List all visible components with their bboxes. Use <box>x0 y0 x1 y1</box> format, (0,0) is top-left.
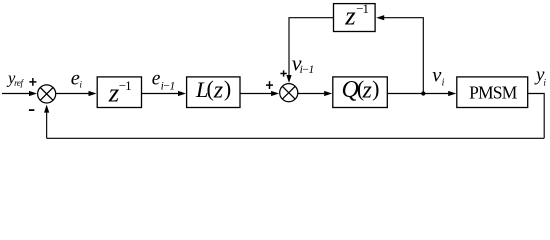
summing junction S1 <box>38 85 56 103</box>
svg-text:(: ( <box>207 76 214 101</box>
arrowhead into S2 top <box>286 75 291 83</box>
wire feedback up into S1 <box>46 112 48 138</box>
wire feedback bottom <box>47 137 545 139</box>
node junction dot at v_i <box>421 91 425 95</box>
block Z2 z^-1 (top) <box>334 4 376 32</box>
svg-text:i−1: i−1 <box>300 64 314 76</box>
wire Q to block PMSM <box>387 93 449 95</box>
arrowhead into Q <box>324 91 332 96</box>
arrowhead into S2 left <box>271 91 279 96</box>
wire input to summer S1 <box>2 93 30 95</box>
wire L to summer S2 <box>240 93 272 95</box>
wire PMSM output y_i <box>528 94 545 139</box>
wire node to top block Z2 <box>384 18 424 94</box>
arrowhead into Z2 right <box>376 15 384 20</box>
summing junction S2 <box>280 84 298 102</box>
block Z1 z^-1 <box>97 77 141 108</box>
svg-text:i: i <box>442 77 445 88</box>
plus sign at S2 left <box>266 81 273 89</box>
svg-text:): ) <box>372 76 379 101</box>
svg-text:e: e <box>152 68 161 89</box>
arrowhead into PMSM <box>448 91 456 96</box>
arrowhead into L <box>178 91 186 96</box>
block PMSM <box>457 77 528 108</box>
svg-text:): ) <box>224 76 231 101</box>
plus sign at S1 <box>29 78 36 86</box>
minus sign at S1 <box>29 109 34 111</box>
arrowhead into S1 <box>29 91 37 96</box>
svg-text:z: z <box>344 0 356 30</box>
svg-text:i−1: i−1 <box>161 80 175 92</box>
block L(z) <box>187 77 240 108</box>
svg-text:−1: −1 <box>356 1 368 16</box>
svg-text:PMSM: PMSM <box>469 83 518 103</box>
arrowhead into Z1 <box>89 91 97 96</box>
plus sign at S2 top <box>280 70 286 76</box>
wire Z2 out down into S2 <box>289 18 334 76</box>
svg-text:i: i <box>543 78 546 88</box>
wire Z1 to block L <box>142 93 179 95</box>
block Q(z) <box>333 77 388 108</box>
svg-text:i: i <box>79 81 82 91</box>
wire S2 to block Q <box>298 93 325 95</box>
svg-text:z: z <box>213 77 224 103</box>
svg-text:−1: −1 <box>119 78 131 93</box>
arrowhead into S1 bottom (feedback) <box>44 105 49 113</box>
svg-text:z: z <box>362 77 373 103</box>
wire S1 to block Z1 <box>56 93 89 95</box>
